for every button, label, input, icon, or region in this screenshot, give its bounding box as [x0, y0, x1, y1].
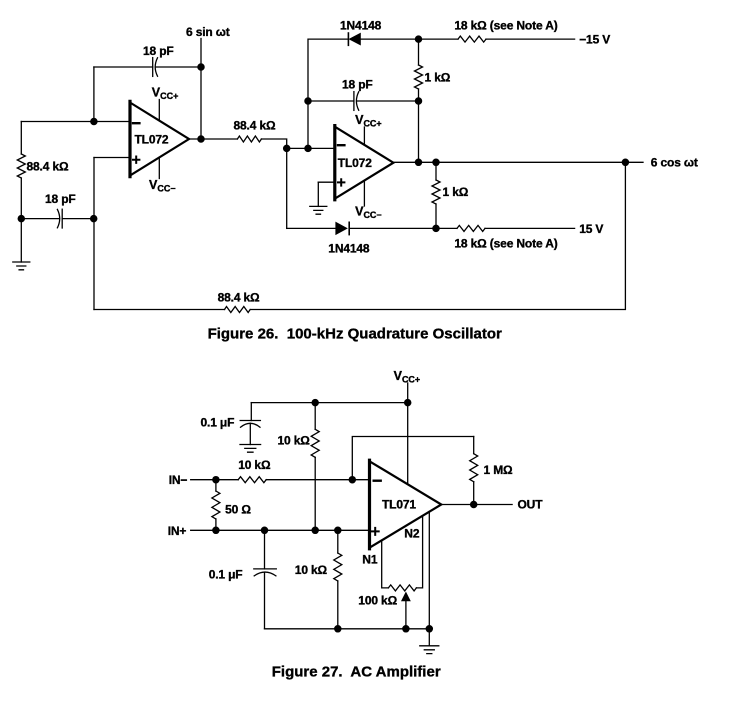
U1B Vcc- pin	[363, 180, 365, 206]
ground (U1B non-inverting)	[310, 182, 327, 214]
node top rail / Vcc	[405, 400, 411, 406]
wire left vertical upper	[20, 122, 22, 155]
U1B inverting input symbol	[338, 144, 344, 146]
wire to U1B inverting elbow	[261, 139, 334, 148]
wire 6 sin wt vertical	[200, 39, 202, 140]
svg-text:10 kΩ: 10 kΩ	[278, 434, 311, 448]
wire feedback loop up and over	[352, 437, 473, 480]
resistor 50 Ohm (vertical)	[212, 480, 220, 531]
svg-text:N2: N2	[404, 527, 420, 541]
svg-text:TL072: TL072	[338, 156, 372, 170]
node U1B inverting branch	[305, 145, 311, 151]
wire vertical down to diode rail	[286, 148, 288, 228]
op-amp U1A TL072	[130, 100, 189, 179]
resistor 10 kOhm (IN- series)	[238, 477, 266, 483]
svg-text:10 kΩ: 10 kΩ	[238, 458, 271, 472]
capacitor C5 0.1 uF (IN+ to rail)	[254, 530, 276, 629]
wire U1B non-inverting to ground	[318, 181, 335, 183]
wire bottom rail	[265, 628, 430, 630]
svg-text:1N4148: 1N4148	[340, 18, 382, 32]
diode D1 1N4148 (points left)	[348, 33, 418, 45]
svg-text:18 pF: 18 pF	[342, 78, 373, 92]
resistor 1 kOhm (upper)	[415, 39, 423, 162]
wire Vcc+ vertical	[407, 383, 409, 484]
node on inverting input	[91, 118, 97, 124]
node U1B inverting elbow	[284, 145, 290, 151]
svg-text:50 Ω: 50 Ω	[225, 503, 251, 517]
wire IN- input	[191, 479, 239, 481]
svg-text:18 kΩ (see Note A): 18 kΩ (see Note A)	[454, 237, 557, 251]
node top rail / 10k	[312, 400, 318, 406]
op-amp U2 TL071	[370, 460, 442, 549]
wire U2 output	[441, 504, 512, 506]
svg-text:10 kΩ: 10 kΩ	[295, 563, 328, 577]
U1A Vcc- pin	[158, 157, 160, 178]
svg-text:18 pF: 18 pF	[45, 192, 76, 206]
wire U1A output	[189, 138, 237, 140]
U1B Vcc+ pin	[363, 127, 365, 145]
resistor 10 kOhm (upper vertical)	[311, 403, 319, 531]
node bottom rail / wiper	[403, 626, 409, 632]
U2 inverting input symbol	[374, 480, 381, 482]
capacitor C1 18 pF (top feedback)	[94, 58, 201, 77]
node lower rail / 1k	[433, 225, 439, 231]
ground (bottom right)	[420, 629, 439, 654]
node bottom rail / 10k	[335, 626, 341, 632]
svg-text:TL071: TL071	[382, 498, 416, 512]
resistor 88.4 kOhm (horizontal, to U1B)	[237, 136, 261, 142]
svg-text:IN−: IN−	[169, 473, 188, 487]
resistor 18 kOhm (to -15V)	[458, 36, 486, 42]
capacitor C2 18 pF (lower left)	[21, 209, 93, 228]
wire to -15V	[419, 38, 575, 40]
node top cap / 6sin line	[198, 64, 204, 70]
wire feedback bottom rail left	[94, 309, 225, 311]
resistor 88.4 kOhm (bottom feedback)	[225, 307, 251, 313]
svg-text:1 MΩ: 1 MΩ	[484, 463, 514, 477]
svg-text:1 kΩ: 1 kΩ	[425, 71, 451, 85]
capacitor C4 0.1 uF (supply bypass)	[240, 403, 260, 445]
node mid cap right	[415, 98, 421, 104]
wire feedback bottom left vertical	[93, 158, 95, 310]
wire lower diode rail	[287, 227, 336, 229]
node IN+ / 10k lower	[335, 527, 341, 533]
potentiometer 100 kOhm (offset null N1-N2)	[382, 516, 423, 629]
pot body zigzag	[388, 585, 416, 591]
U1A Vcc+ pin	[158, 100, 160, 121]
node bottom rail / output leg	[426, 626, 432, 632]
resistor 1 kOhm (lower)	[432, 162, 440, 228]
U1A inverting input symbol	[133, 122, 139, 124]
capacitor C3 18 pF (U1B feedback)	[354, 92, 419, 111]
svg-text:Figure 27. AC Amplifier: Figure 27. AC Amplifier	[272, 664, 441, 681]
svg-text:1 kΩ: 1 kΩ	[443, 185, 469, 199]
wiper arrow	[405, 601, 407, 629]
wire vertical from top cap to inverting node	[93, 67, 95, 122]
svg-text:N1: N1	[362, 553, 378, 567]
node lower cap right	[91, 216, 97, 222]
op-amp U1B TL072	[335, 126, 394, 206]
ground (bypass cap)	[240, 445, 261, 453]
wire U1A non-inverting input	[94, 157, 130, 159]
resistor 1 MOhm (feedback)	[470, 437, 478, 505]
svg-text:6 sin ωt: 6 sin ωt	[186, 25, 230, 39]
U1A non-inverting input symbol	[133, 157, 139, 163]
resistor 88.4 kOhm (left vertical)	[17, 154, 25, 178]
svg-text:0.1 μF: 0.1 μF	[209, 568, 243, 582]
svg-text:IN+: IN+	[168, 524, 187, 538]
wire output to bottom rail	[428, 512, 430, 629]
wire vertical up to top diode rail	[308, 39, 348, 148]
svg-text:Figure 26. 100-kHz Quadrature: Figure 26. 100-kHz Quadrature Oscillator	[208, 326, 502, 343]
ground (lower left)	[13, 219, 30, 270]
node output / feedback	[622, 159, 628, 165]
node left cap left	[18, 216, 24, 222]
wire U1A inverting input	[21, 121, 130, 123]
svg-text:TL072: TL072	[135, 132, 169, 146]
node IN+ / 0.1uF	[261, 527, 267, 533]
svg-text:−15 V: −15 V	[579, 33, 610, 47]
svg-text:88.4 kΩ: 88.4 kΩ	[218, 291, 260, 305]
svg-text:88.4 kΩ: 88.4 kΩ	[234, 119, 276, 133]
node output / 1k upper	[415, 159, 421, 165]
node top rail right	[415, 36, 421, 42]
node IN+ / 10k upper	[312, 527, 318, 533]
diode D2 1N4148 (points right)	[336, 222, 436, 234]
wire top supply rail	[251, 402, 407, 404]
U2 non-inverting input symbol	[372, 528, 379, 535]
node IN+ / 50 ohm	[213, 527, 219, 533]
resistor 10 kOhm (lower vertical)	[334, 530, 342, 629]
svg-text:OUT: OUT	[518, 498, 544, 512]
N2 leg	[416, 516, 422, 588]
wire left vertical lower	[20, 178, 22, 219]
wire to U2 inverting input	[266, 479, 369, 481]
wire to 15V	[436, 227, 575, 229]
node mid cap left	[305, 98, 311, 104]
node output / 1k lower branch	[433, 159, 439, 165]
svg-text:88.4 kΩ: 88.4 kΩ	[27, 160, 69, 174]
wire IN+ input rail	[191, 529, 370, 531]
U1B non-inverting input symbol	[338, 179, 344, 185]
svg-text:6 cos ωt: 6 cos ωt	[651, 155, 698, 169]
svg-text:15 V: 15 V	[579, 222, 603, 236]
resistor 18 kOhm (to 15V)	[457, 225, 485, 231]
wire feedback bottom rail right	[251, 162, 626, 309]
wire mid cap rail	[308, 100, 354, 102]
wire U1B output rail	[393, 161, 643, 163]
svg-text:100 kΩ: 100 kΩ	[358, 594, 397, 608]
node inverting / feedback	[349, 477, 355, 483]
N1 leg	[382, 540, 389, 588]
svg-text:0.1 μF: 0.1 μF	[201, 416, 235, 430]
node U1A output	[198, 136, 204, 142]
svg-text:1N4148: 1N4148	[328, 242, 370, 256]
svg-text:18 pF: 18 pF	[143, 44, 174, 58]
node IN- / 50 ohm	[213, 477, 219, 483]
svg-text:18 kΩ (see Note A): 18 kΩ (see Note A)	[454, 18, 557, 32]
node output	[471, 501, 477, 507]
